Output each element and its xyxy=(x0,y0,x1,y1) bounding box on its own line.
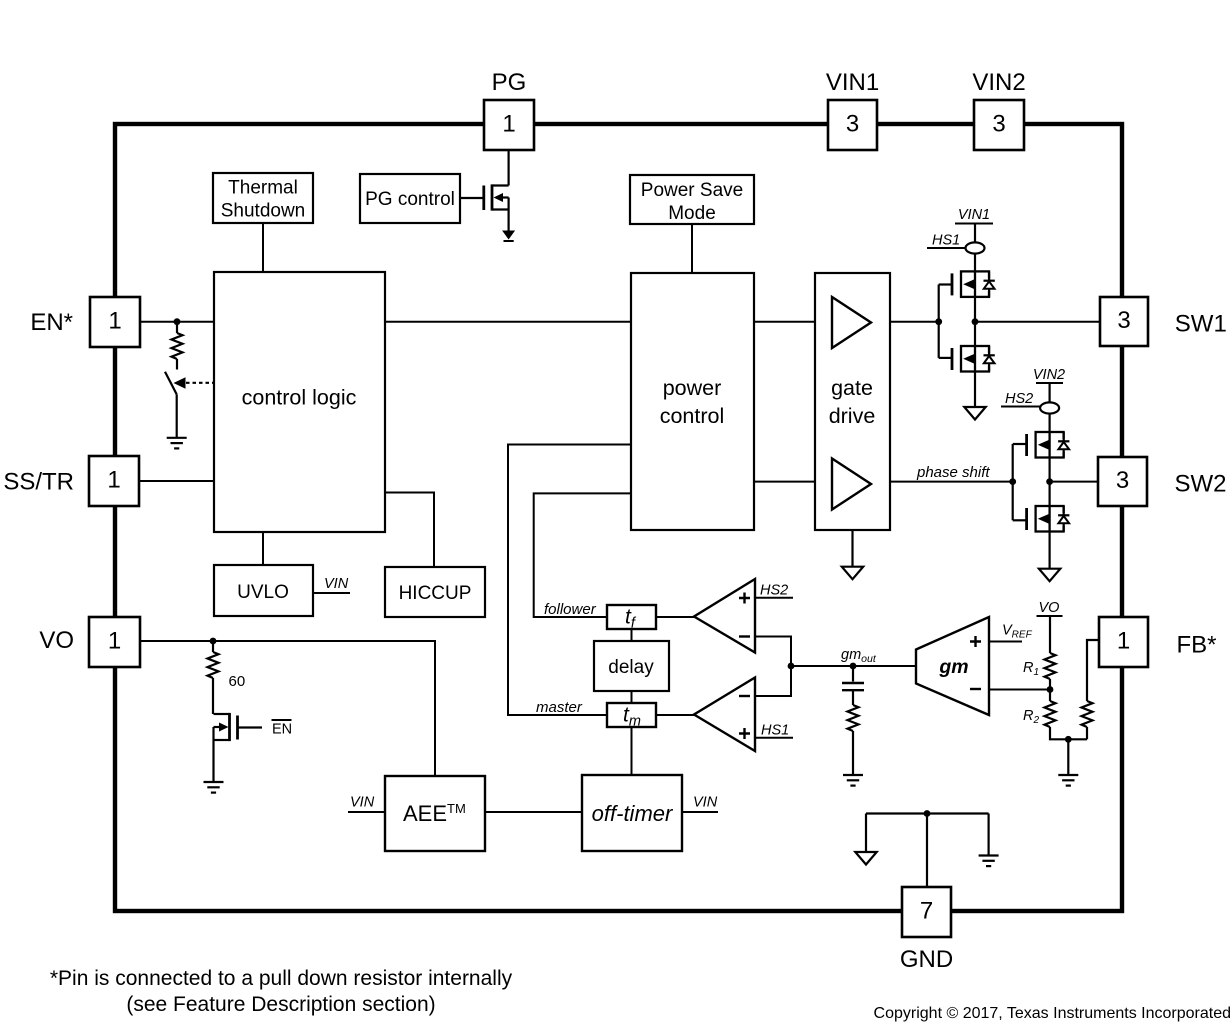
minus input gm xyxy=(970,688,981,690)
block HICCUP xyxy=(385,567,485,617)
block Thermal Shutdown xyxy=(213,173,313,223)
ground (analog ground) xyxy=(979,856,999,867)
comparator B (master, tm) xyxy=(694,678,755,752)
svg-text:gm: gm xyxy=(938,656,968,678)
wire rail to analog ground xyxy=(987,814,989,856)
block tf xyxy=(607,605,656,632)
svg-text:Copyright © 2017, Texas Instru: Copyright © 2017, Texas Instruments Inco… xyxy=(874,1005,1230,1022)
wire control logic to UVLO xyxy=(262,532,264,565)
wire Thermal Shutdown to control logic xyxy=(262,223,264,272)
wire resistor to ground xyxy=(852,731,854,775)
wire tf to delay xyxy=(631,629,633,641)
node SW2 xyxy=(1046,478,1053,485)
resistor R1 xyxy=(1045,653,1056,679)
block tm xyxy=(607,703,656,730)
svg-text:SS/TR: SS/TR xyxy=(3,469,74,496)
svg-text:Thermal: Thermal xyxy=(228,178,298,199)
svg-text:SW1: SW1 xyxy=(1175,311,1227,338)
svg-text:control: control xyxy=(660,404,725,428)
transistor M2 (SW1 low side) xyxy=(952,346,996,372)
wire power control to tf (follower path) xyxy=(534,493,631,617)
SW2 half bridge xyxy=(1001,367,1098,581)
node SW1 gate junction xyxy=(935,318,942,325)
ground arrow (power ground) xyxy=(855,852,876,865)
svg-text:1: 1 xyxy=(108,308,121,335)
wire VIN stub at AEE xyxy=(348,811,385,813)
switch EN (blade) xyxy=(165,372,177,395)
pin PG xyxy=(484,69,534,150)
pin VIN2 xyxy=(972,69,1025,150)
wire AEE to off-timer xyxy=(485,811,582,813)
svg-text:HS2: HS2 xyxy=(760,583,788,599)
svg-text:master: master xyxy=(536,699,583,716)
node comparator bracket junction xyxy=(788,663,795,670)
svg-text:1: 1 xyxy=(502,111,515,138)
wire control logic to power control xyxy=(385,321,631,323)
wire tm to off-timer xyxy=(631,727,633,775)
resistor EN pull-down xyxy=(172,322,183,370)
plus input gm xyxy=(970,636,981,647)
svg-text:1: 1 xyxy=(108,628,121,655)
buffer triangle lower (gate drive) xyxy=(832,459,871,510)
wire VREF stub xyxy=(989,641,1022,643)
svg-text:power: power xyxy=(663,376,722,400)
pin VIN1 xyxy=(826,69,879,150)
pin GND xyxy=(900,887,953,973)
wire capacitor to resistor xyxy=(852,690,854,705)
plus input comparator B xyxy=(739,728,750,739)
pin EN xyxy=(30,297,140,347)
svg-text:Mode: Mode xyxy=(668,203,716,224)
wire switch to ground xyxy=(176,394,178,437)
wire comparator minus bracket xyxy=(755,637,791,697)
wire delay to tm xyxy=(631,691,633,703)
wire SW1 node to pin xyxy=(975,321,1100,323)
svg-text:VIN: VIN xyxy=(693,795,718,811)
wire power control to tm (master path) xyxy=(508,445,631,716)
wire gate drive to SW1 gate bus xyxy=(890,321,939,323)
transistor M3 (SW2 high side) xyxy=(1027,432,1071,458)
svg-text:HS1: HS1 xyxy=(761,723,789,739)
block gate drive xyxy=(815,273,890,530)
svg-text:PG control: PG control xyxy=(365,189,455,210)
resistor R2 xyxy=(1045,701,1056,727)
wire M3 to M4 xyxy=(1048,458,1050,507)
svg-text:off-timer: off-timer xyxy=(592,801,674,826)
block AEE xyxy=(385,776,485,851)
svg-text:3: 3 xyxy=(1116,467,1129,494)
plus input comparator A xyxy=(739,593,750,604)
wire junction to ground xyxy=(1067,739,1069,775)
svg-text:follower: follower xyxy=(544,601,597,618)
wire VIN2 to sense bubble xyxy=(1048,383,1050,403)
wire tf to comparator A xyxy=(656,616,694,618)
ground (EN transistor) xyxy=(204,782,224,793)
pin SW1 xyxy=(1100,297,1227,346)
node feedback junction xyxy=(1047,686,1054,693)
svg-text:1: 1 xyxy=(1117,628,1130,655)
wire M3 gate bus xyxy=(1013,443,1027,445)
wire VIN stub at off-timer xyxy=(682,811,718,813)
svg-text:SW2: SW2 xyxy=(1175,471,1227,498)
wire M1 to M2 xyxy=(974,297,976,346)
node GND junction xyxy=(924,810,931,817)
resistor FB internal pull-down xyxy=(1082,640,1100,739)
transistor Q_PG (NMOS at PG pin) xyxy=(460,150,509,231)
svg-text:1: 1 xyxy=(107,467,120,494)
wire power control to gate drive upper xyxy=(754,321,815,323)
node VO junction xyxy=(210,638,217,645)
svg-text:VIN: VIN xyxy=(324,576,349,592)
svg-text:3: 3 xyxy=(1117,307,1130,334)
wire bracket to gm output xyxy=(791,665,916,667)
svg-text:PG: PG xyxy=(492,69,527,96)
svg-text:FB*: FB* xyxy=(1177,632,1217,659)
node gm_out xyxy=(850,663,857,670)
svg-text:drive: drive xyxy=(829,404,876,428)
svg-text:Power Save: Power Save xyxy=(641,180,743,201)
svg-text:60: 60 xyxy=(229,673,246,690)
ground arrow (PG transistor, small solid) xyxy=(502,231,515,240)
wire gate drive to ground xyxy=(851,530,853,567)
svg-text:7: 7 xyxy=(920,898,933,925)
svg-text:3: 3 xyxy=(992,111,1005,138)
wire control logic to HICCUP xyxy=(385,493,434,568)
wire VIN stub at UVLO xyxy=(313,592,350,594)
svg-text:VO: VO xyxy=(39,627,74,654)
pin SW2 xyxy=(1098,457,1227,506)
resistor 60 xyxy=(208,641,219,714)
wire bubble to M3 xyxy=(1048,414,1050,432)
wire SS/TR pin to control logic xyxy=(139,480,214,482)
wire R2 to ground rail xyxy=(1050,727,1087,739)
wire Power Save Mode to power control xyxy=(691,224,693,273)
wire tm to comparator B xyxy=(656,714,694,716)
block control logic xyxy=(214,272,385,532)
node SW1 xyxy=(972,318,979,325)
wire gm_out to compensation xyxy=(852,666,854,682)
svg-text:EN: EN xyxy=(272,722,292,738)
resistor compensation xyxy=(848,705,859,731)
svg-text:HICCUP: HICCUP xyxy=(399,583,472,604)
wire power control to gate drive lower xyxy=(754,481,815,483)
wire M1 gate bus xyxy=(939,283,952,285)
ground (compensation) xyxy=(843,775,863,786)
pin SS/TR xyxy=(3,456,139,506)
buffer triangle upper (gate drive) xyxy=(832,297,871,348)
SW1 half bridge xyxy=(927,207,1100,420)
block UVLO xyxy=(214,565,313,616)
svg-text:VIN2: VIN2 xyxy=(972,69,1025,96)
wire GND rail xyxy=(866,812,989,814)
wire EN pin to control logic xyxy=(140,321,214,323)
wire gm minus to feedback divider xyxy=(989,689,1050,691)
pin FB xyxy=(1099,617,1217,667)
wire rail to power ground xyxy=(865,814,867,853)
wire bubble to M1 xyxy=(974,254,976,272)
svg-text:UVLO: UVLO xyxy=(237,582,289,603)
block off-timer xyxy=(582,775,682,851)
ground arrow (SW1 bridge) xyxy=(964,407,985,420)
dashed control line from control logic to switch xyxy=(186,382,213,384)
ground arrow (SW2 bridge) xyxy=(1039,569,1060,582)
svg-text:delay: delay xyxy=(608,657,654,678)
wire M2 to ground xyxy=(974,372,976,408)
node EN junction xyxy=(174,318,181,325)
minus input comparator A xyxy=(739,635,750,637)
ground arrow (gate drive) xyxy=(842,567,863,580)
wire SW2 node to pin xyxy=(1050,481,1098,483)
ground (feedback divider) xyxy=(1058,775,1078,786)
wire VO pin to AEE xyxy=(140,641,435,776)
svg-text:VIN: VIN xyxy=(350,795,375,811)
svg-text:Shutdown: Shutdown xyxy=(221,201,306,222)
block delay xyxy=(594,641,669,691)
arrowhead on switch control xyxy=(174,377,186,388)
svg-text:gate: gate xyxy=(831,376,873,400)
svg-text:HS2: HS2 xyxy=(1005,391,1033,407)
svg-text:GND: GND xyxy=(900,946,953,973)
svg-text:VO: VO xyxy=(1039,600,1060,616)
svg-text:*Pin is connected to a pull do: *Pin is connected to a pull down resisto… xyxy=(50,967,513,990)
svg-text:VIN1: VIN1 xyxy=(958,207,990,223)
block Power Save Mode xyxy=(630,175,754,224)
svg-text:3: 3 xyxy=(846,111,859,138)
svg-text:HS1: HS1 xyxy=(932,233,960,249)
svg-text:phase shift: phase shift xyxy=(916,464,990,481)
wire VO to R1 xyxy=(1049,616,1051,653)
wire phase shift (gate drive to SW2 gate bus) xyxy=(890,481,1013,483)
op-amp gm (error amplifier) xyxy=(916,617,989,715)
current sense bubble HS1 xyxy=(966,242,985,253)
transistor M4 (SW2 low side) xyxy=(1027,506,1071,532)
wire VIN1 to sense bubble xyxy=(974,224,976,243)
current sense bubble HS2 xyxy=(1040,402,1059,413)
node SW2 gate junction xyxy=(1009,478,1016,485)
svg-text:EN*: EN* xyxy=(30,309,73,336)
block power control xyxy=(631,273,754,530)
block PG control xyxy=(360,174,460,223)
wire junction to GND pin xyxy=(926,814,928,889)
svg-text:(see Feature Description secti: (see Feature Description section) xyxy=(126,993,435,1016)
svg-text:VIN1: VIN1 xyxy=(826,69,879,96)
IC boundary xyxy=(115,124,1122,911)
comparator A (follower, tf) xyxy=(694,579,755,653)
minus input comparator B xyxy=(739,695,750,697)
ground (EN switch) xyxy=(167,438,187,449)
capacitor compensation xyxy=(842,682,864,684)
transistor M1 (SW1 high side) xyxy=(952,271,996,297)
pin VO xyxy=(39,617,140,667)
svg-text:control logic: control logic xyxy=(242,386,357,410)
transistor Q_EN (mirrored NMOS) xyxy=(214,713,263,782)
node divider ground junction xyxy=(1065,736,1072,743)
wire R1 to R2 xyxy=(1049,679,1051,701)
wire M4 to ground xyxy=(1048,532,1050,569)
svg-text:VIN2: VIN2 xyxy=(1033,367,1065,383)
GND pin network xyxy=(855,810,998,888)
